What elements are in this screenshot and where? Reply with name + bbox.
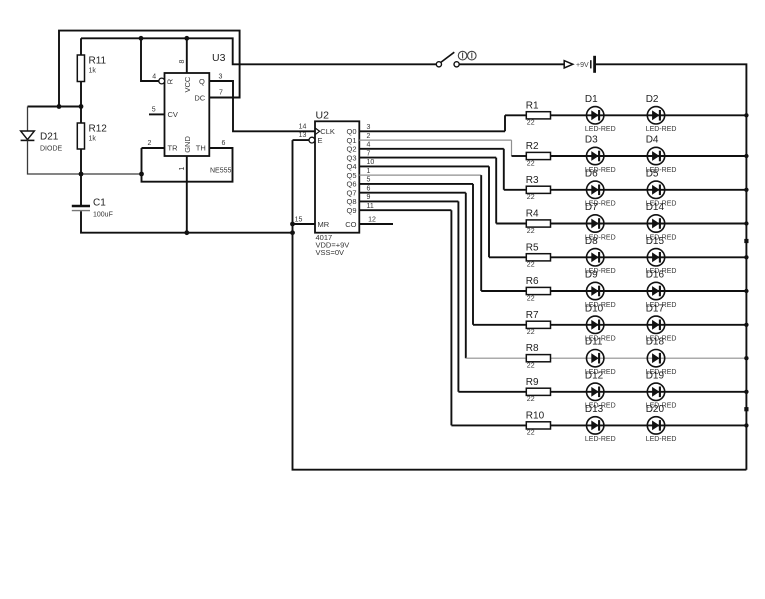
svg-text:22: 22 <box>527 262 535 269</box>
svg-text:22: 22 <box>527 396 535 403</box>
node marker on rail between rows 9-10 <box>744 407 748 411</box>
svg-text:D12: D12 <box>585 370 604 381</box>
resistor R5 22 ohm <box>526 242 551 268</box>
svg-text:TR: TR <box>168 144 179 153</box>
svg-text:D20: D20 <box>646 404 665 415</box>
svg-text:LED-RED: LED-RED <box>585 126 616 133</box>
svg-text:7: 7 <box>367 150 371 157</box>
LED D17 <box>646 303 677 342</box>
junction top-loop vertical at divider wire <box>57 104 62 109</box>
wire TR-TH link below U3 <box>142 148 233 182</box>
wire U2 Q5 (pin 1) to R6 <box>359 174 481 176</box>
svg-text:D3: D3 <box>585 135 598 146</box>
svg-text:11: 11 <box>367 203 374 210</box>
svg-text:8: 8 <box>179 60 186 64</box>
svg-text:D11: D11 <box>585 337 603 348</box>
svg-text:22: 22 <box>527 329 535 336</box>
junction row 2 on right rail <box>744 154 748 158</box>
svg-text:1k: 1k <box>89 136 97 143</box>
wire R11/R12 junction to D21 anode <box>28 106 82 108</box>
wire U3 pin3 Q to U2 CLK <box>209 81 315 131</box>
LED D13 <box>585 404 616 443</box>
resistor R2 22 ohm <box>526 141 551 167</box>
resistor R12 <box>77 123 107 149</box>
LED D6 <box>585 168 616 207</box>
wire U2 pin15 MR <box>293 223 316 225</box>
svg-text:4: 4 <box>152 74 156 81</box>
svg-text:CO: CO <box>345 220 356 229</box>
LED D4 <box>646 135 677 174</box>
svg-text:Q8: Q8 <box>346 197 356 206</box>
svg-text:6: 6 <box>222 140 226 147</box>
svg-text:D6: D6 <box>585 168 598 179</box>
wire R12 branch <box>80 107 82 175</box>
svg-text:D17: D17 <box>646 303 665 314</box>
svg-text:CV: CV <box>168 110 178 119</box>
svg-text:Q1: Q1 <box>346 136 356 145</box>
wire ground rail from C1 bottom <box>81 211 293 232</box>
svg-text:12: 12 <box>368 216 376 223</box>
svg-text:D16: D16 <box>646 270 665 281</box>
wire into U3 pin2 TR <box>142 147 165 149</box>
svg-text:D13: D13 <box>585 404 604 415</box>
LED D1 <box>585 94 616 133</box>
svg-text:D19: D19 <box>646 370 665 381</box>
wire U2 Q2 (pin 4) to R3 <box>359 149 526 190</box>
svg-text:CLK: CLK <box>320 127 335 136</box>
svg-text:D21: D21 <box>40 132 59 143</box>
svg-text:LED-RED: LED-RED <box>585 436 616 443</box>
svg-text:Q: Q <box>199 77 205 86</box>
svg-text:5: 5 <box>367 177 371 184</box>
resistor R11 <box>77 55 106 82</box>
wire row 5: R5 through D8,D15 to rail <box>551 256 747 258</box>
LED D16 <box>646 270 677 309</box>
svg-text:2: 2 <box>367 133 371 140</box>
wire row 7: R7 through D10,D17 to rail <box>551 324 747 326</box>
wire row 8: R8 through D11,D18 to rail <box>551 357 747 359</box>
svg-text:GND: GND <box>183 136 192 153</box>
svg-text:Q9: Q9 <box>346 206 356 215</box>
svg-text:R: R <box>165 78 174 84</box>
counter U2 4017 <box>295 109 376 257</box>
svg-text:TH: TH <box>196 144 206 153</box>
junction U3 GND pin on ground rail <box>184 230 189 235</box>
svg-text:DC: DC <box>194 93 205 102</box>
svg-text:Q7: Q7 <box>346 188 356 197</box>
svg-text:D4: D4 <box>646 135 659 146</box>
node marker on rail between rows 4-5 <box>744 239 748 243</box>
svg-text:4: 4 <box>367 142 371 149</box>
junction row 4 on right rail <box>744 221 748 225</box>
svg-text:DIODE: DIODE <box>40 146 63 153</box>
resistor R1 22 ohm <box>526 100 551 126</box>
resistor R3 22 ohm <box>526 175 551 201</box>
svg-text:MR: MR <box>318 220 330 229</box>
svg-text:22: 22 <box>527 430 535 437</box>
svg-text:10: 10 <box>367 159 375 166</box>
svg-text:14: 14 <box>299 123 307 130</box>
diode D21 <box>21 131 63 153</box>
wire pin7 net: U3 DC to R11/R12 junction (top loop) <box>59 31 240 107</box>
junction row 7 on right rail <box>744 323 748 327</box>
resistor R10 22 ohm <box>526 410 551 436</box>
svg-text:22: 22 <box>527 194 535 201</box>
LED D11 <box>585 337 616 376</box>
svg-text:Q4: Q4 <box>346 162 356 171</box>
svg-text:R8: R8 <box>526 343 539 354</box>
svg-text:22: 22 <box>527 295 535 302</box>
svg-text:R2: R2 <box>526 141 539 152</box>
svg-text:R9: R9 <box>526 377 539 388</box>
svg-text:22: 22 <box>527 160 535 167</box>
LED D7 <box>585 202 616 241</box>
wire D21 anode lead <box>27 107 29 132</box>
wire row 1: R1 through D1,D2 to rail <box>551 114 747 116</box>
junction row 9 on right rail <box>744 390 748 394</box>
LED D19 <box>646 370 677 409</box>
svg-text:1: 1 <box>367 168 371 175</box>
junction row 1 on right rail <box>744 113 748 117</box>
wire U3 pin1 GND to ground rail <box>186 156 188 233</box>
svg-text:D7: D7 <box>585 202 598 213</box>
op-amp/timer U3 NE555 <box>148 52 232 175</box>
capacitor C1 <box>72 198 113 219</box>
LED D12 <box>585 370 616 409</box>
wire D21 cathode to TR/TH net <box>28 140 142 174</box>
wire C1 top lead <box>80 174 82 205</box>
svg-text:7: 7 <box>219 90 223 97</box>
junction TR branch on TR/TH net <box>139 172 144 177</box>
junction pin4 branch on VCC wire <box>139 36 144 41</box>
wire row 6: R6 through D9,D16 to rail <box>551 290 747 292</box>
svg-text:6: 6 <box>367 186 371 193</box>
svg-text:1: 1 <box>179 167 186 171</box>
LED D9 <box>585 270 616 309</box>
wire U2 Q9 (pin 11) to R10 <box>359 210 526 425</box>
svg-text:D8: D8 <box>585 236 598 247</box>
wire ground: E/MR vertical down and bottom run to right rail <box>293 140 747 470</box>
svg-text:D2: D2 <box>646 94 659 105</box>
wire row 9: R9 through D12,D19 to rail <box>551 391 747 393</box>
svg-text:3: 3 <box>219 73 223 80</box>
svg-text:D1: D1 <box>585 94 598 105</box>
LED D2 <box>646 94 677 133</box>
wire U2 Q1 (pin 2) to R2 <box>359 140 511 156</box>
junction MR branch <box>290 222 295 227</box>
svg-text:LED-RED: LED-RED <box>646 436 677 443</box>
wire U2 Q4 (pin 10) to R5 <box>359 166 526 257</box>
wire through R11 position <box>80 38 82 106</box>
LED D20 <box>646 404 677 443</box>
svg-text:13: 13 <box>299 132 307 139</box>
svg-text:R4: R4 <box>526 209 539 220</box>
svg-text:Q0: Q0 <box>346 127 356 136</box>
wire U2 pin13 E to ground branch <box>293 139 309 141</box>
svg-text:Q6: Q6 <box>346 180 356 189</box>
svg-text:E: E <box>318 136 323 145</box>
svg-text:R5: R5 <box>526 242 539 253</box>
LED D15 <box>646 236 677 275</box>
LED D3 <box>585 135 616 174</box>
wire U2 Q3 (pin 7) to R4 <box>359 158 526 224</box>
svg-text:D9: D9 <box>585 270 598 281</box>
LED D10 <box>585 303 616 342</box>
svg-text:R10: R10 <box>526 410 545 421</box>
svg-text:R7: R7 <box>526 310 539 321</box>
wire row 3: R3 through D6,D5 to rail <box>551 189 747 191</box>
svg-text:R1: R1 <box>526 100 539 111</box>
svg-text:100uF: 100uF <box>93 212 113 219</box>
wire VCC to U3 pin8 <box>186 38 188 73</box>
svg-text:9: 9 <box>367 194 371 201</box>
LED D14 <box>646 202 677 241</box>
svg-text:VSS=0V: VSS=0V <box>316 248 345 257</box>
wire row 10: R10 through D13,D20 to rail <box>551 424 747 426</box>
svg-text:R6: R6 <box>526 276 539 287</box>
wire U2 Q6 (pin 5) to R7 <box>359 184 526 325</box>
resistor R8 22 ohm <box>526 343 551 369</box>
wire row 2: R2 through D3,D4 to rail <box>551 155 747 157</box>
resistor R4 22 ohm <box>526 209 551 235</box>
junction C1 top on TR/TH net <box>79 172 84 177</box>
resistor R9 22 ohm <box>526 377 551 403</box>
svg-text:U2: U2 <box>316 109 330 121</box>
junction ground rail meets vertical <box>290 230 295 235</box>
junction R11 bottom / R12 top <box>79 104 84 109</box>
svg-text:D15: D15 <box>646 236 665 247</box>
LED D8 <box>585 236 616 275</box>
wire U2 Q8 (pin 9) to R9 <box>359 201 526 391</box>
wire battery to right rail down <box>596 64 746 469</box>
svg-text:NE555: NE555 <box>210 168 232 175</box>
svg-text:D14: D14 <box>646 202 665 213</box>
svg-text:2: 2 <box>148 140 152 147</box>
svg-text:15: 15 <box>295 216 303 223</box>
junction row 6 on right rail <box>744 289 748 293</box>
wire U2 Q0 (pin 3) to R1 <box>359 115 526 131</box>
svg-text:VCC: VCC <box>183 76 192 92</box>
svg-text:5: 5 <box>152 107 156 114</box>
svg-text:3: 3 <box>367 124 371 131</box>
LED D5 <box>646 168 677 207</box>
junction pin8 branch on VCC wire <box>184 36 189 41</box>
junction row 5 on right rail <box>744 255 748 259</box>
svg-text:22: 22 <box>527 228 535 235</box>
svg-text:LED-RED: LED-RED <box>646 126 677 133</box>
wire VCC net: R11 top / pin4 / pin8 to switch <box>81 38 436 64</box>
resistor R6 22 ohm <box>526 276 551 302</box>
svg-text:D10: D10 <box>585 303 604 314</box>
junction row 10 on right rail <box>744 423 748 427</box>
switch S1 (SPST, open) <box>436 51 476 67</box>
junction row 3 on right rail <box>744 188 748 192</box>
wire U3 pin5 CV stub <box>149 113 165 115</box>
svg-text:D5: D5 <box>646 168 659 179</box>
svg-text:R12: R12 <box>89 124 108 135</box>
svg-text:C1: C1 <box>93 198 106 209</box>
LED D18 <box>646 337 677 376</box>
resistor R7 22 ohm <box>526 310 551 336</box>
svg-text:U3: U3 <box>212 52 226 64</box>
svg-text:Q5: Q5 <box>346 171 356 180</box>
wire VCC to U3 pin4 (reset) <box>141 38 159 81</box>
svg-text:1k: 1k <box>89 68 97 75</box>
svg-text:22: 22 <box>527 120 535 127</box>
junction row 8 on right rail <box>744 356 748 360</box>
svg-text:22: 22 <box>527 363 535 370</box>
wire U2 Q7 (pin 6) to R8 <box>359 193 466 359</box>
wire switch to battery <box>459 63 564 65</box>
battery V1 +9V <box>564 56 594 73</box>
svg-text:D18: D18 <box>646 337 665 348</box>
svg-text:+9V: +9V <box>576 62 589 69</box>
svg-text:R3: R3 <box>526 175 539 186</box>
wire row 4: R4 through D7,D14 to rail <box>551 223 747 225</box>
wire U2 pin12 CO stub <box>359 223 393 225</box>
svg-text:Q3: Q3 <box>346 153 356 162</box>
svg-text:Q2: Q2 <box>346 145 356 154</box>
svg-text:R11: R11 <box>89 56 107 67</box>
